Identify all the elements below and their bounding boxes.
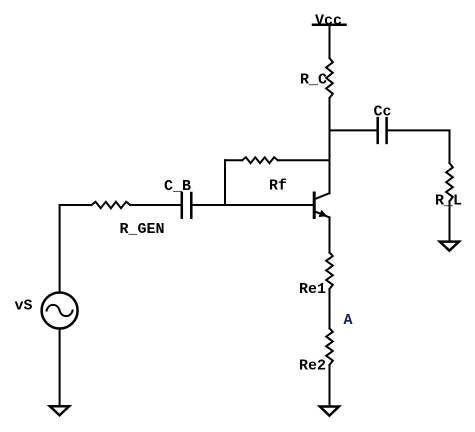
- svg-text:Re2: Re2: [299, 358, 326, 375]
- wire Rf left: [225, 159, 242, 161]
- resistor Re2: [326, 328, 333, 365]
- wire R_L to ground: [449, 201, 451, 241]
- transistor Q1 emitter arrow: [320, 211, 327, 216]
- wire node A: [329, 289, 331, 328]
- ground (R_L): [440, 242, 459, 251]
- transistor Q1 base bar: [313, 193, 316, 218]
- svg-text:Rf: Rf: [269, 178, 287, 195]
- wire source top: [59, 205, 61, 293]
- ground (emitter): [320, 407, 339, 416]
- svg-text:Re1: Re1: [299, 281, 326, 298]
- resistor R_GEN: [91, 202, 130, 208]
- wire Re2 to ground: [329, 365, 331, 407]
- ground (source): [50, 406, 69, 415]
- resistor Re1: [326, 253, 333, 290]
- wire C_B to base: [191, 204, 314, 206]
- wire Rf branch vertical: [224, 160, 226, 205]
- svg-text:A: A: [344, 312, 353, 329]
- wire Vcc to R_C: [329, 25, 331, 58]
- svg-text:vS: vS: [15, 298, 33, 315]
- wire input left: [60, 204, 92, 206]
- svg-text:R_C: R_C: [300, 72, 327, 89]
- transistor Q1 emitter lead: [314, 211, 329, 217]
- svg-text:Vcc: Vcc: [315, 13, 342, 30]
- svg-text:C_B: C_B: [164, 178, 191, 195]
- wire Rf right to collector column: [278, 159, 330, 161]
- Vcc power bar: [313, 24, 346, 27]
- capacitor C_B: [182, 193, 192, 218]
- wire R_C to collector: [329, 98, 331, 193]
- svg-text:R_L: R_L: [435, 193, 462, 210]
- wire source bottom: [59, 329, 61, 407]
- svg-text:Cc: Cc: [374, 104, 392, 121]
- wire collector node to Cc: [330, 129, 378, 131]
- resistor Rf: [242, 157, 278, 163]
- transistor Q1 collector lead: [314, 193, 329, 199]
- resistor R_L: [446, 163, 453, 201]
- wire R_GEN to C_B: [130, 204, 182, 206]
- resistor R_C: [326, 58, 333, 98]
- source vS circle: [42, 293, 78, 329]
- wire Cc to R_L corner: [387, 130, 450, 163]
- source vS sine: [47, 305, 73, 316]
- capacitor Cc: [378, 118, 387, 143]
- wire emitter to Re1: [329, 217, 331, 252]
- svg-text:R_GEN: R_GEN: [120, 221, 165, 238]
